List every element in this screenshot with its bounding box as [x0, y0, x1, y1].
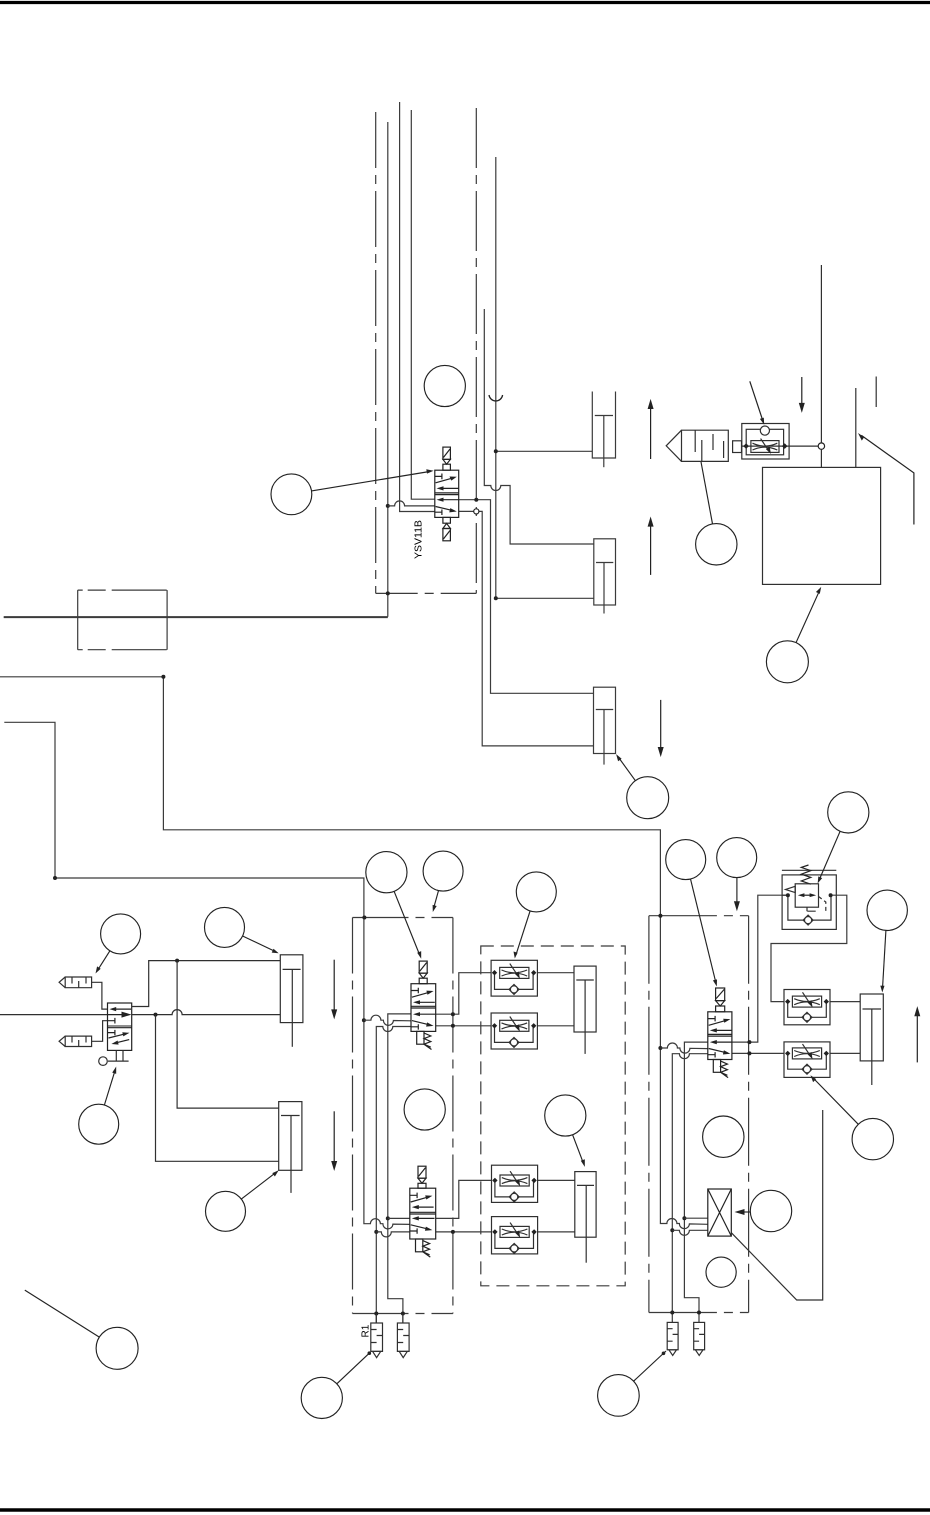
boundary dash-dot box right group	[649, 916, 749, 1313]
valve R top left arrow	[713, 1029, 731, 1031]
valve C2 top left arrow	[415, 1206, 433, 1208]
node junction dot supply to valve C1 port2	[362, 1018, 366, 1022]
svg-text:R1: R1	[361, 1324, 372, 1337]
valve C1 return spring	[417, 1031, 424, 1044]
REG left exhaust triangle	[786, 886, 796, 892]
valve C1 top left arrow	[417, 1001, 435, 1003]
valve C2 bottom blocked T	[410, 1228, 417, 1233]
FV0 adjustment arrow	[761, 439, 770, 452]
wire: valve C1 port1 to R1-B regulator	[388, 1014, 411, 1323]
short mark line right of main vertical	[875, 377, 877, 408]
hand valve body (left)	[108, 1003, 132, 1050]
flow control valve FV1	[491, 960, 537, 996]
YSV11B bottom chamber blocked port T	[435, 510, 442, 516]
frame bottom border	[0, 1508, 930, 1511]
wire: branch to cylinder L2 bottom port	[156, 1015, 279, 1162]
wire: valve C1 right port1 to FV1	[436, 973, 491, 1015]
cylinder R	[860, 994, 883, 1061]
balloon circle cylinder3 with leader	[627, 777, 669, 819]
flow control valve FV4	[492, 1217, 538, 1254]
valve C2 top diagonal arrow	[411, 1197, 430, 1202]
solenoid valve R body	[708, 1012, 732, 1060]
motion arrow up beside cylinder2	[650, 521, 652, 575]
valve R bottom blocked T	[708, 1052, 715, 1057]
wire: YSV11B right port3 down to cylinder3 lower port	[459, 511, 594, 746]
hand valve through arrow	[108, 1014, 128, 1016]
wire: branch to cylinder L2 top port	[177, 961, 279, 1109]
FV0 check circle	[760, 426, 769, 435]
hand valve top chamber blocked T	[108, 1018, 115, 1024]
node junction dot X-box port1 branch	[682, 1216, 686, 1220]
node dot boundary crossing C2 port3	[451, 1230, 455, 1234]
muffler silencer top right	[682, 430, 729, 461]
wire: FV4 to cylinder C2	[538, 1231, 575, 1233]
balloon circle regulator RB-A with leader	[598, 1375, 640, 1417]
valve R bottom left arrow	[713, 1041, 732, 1043]
FV0 throttle bowtie	[753, 443, 778, 450]
balloon circle FV-R2 with leader	[852, 1118, 893, 1159]
node junction dot R1-B feed	[401, 1312, 405, 1316]
balloon circle center box with leader	[423, 851, 463, 891]
node open circle on boundary crossing	[474, 509, 479, 514]
valve C1 bottom diagonal arrow	[412, 1021, 431, 1026]
solenoid valve YSV11B body	[435, 470, 459, 517]
wire: supply line to cylinder1 and cylinder2 lower port	[496, 157, 594, 598]
frame top border	[0, 1, 930, 4]
pressure regulator R1-A	[371, 1323, 383, 1351]
node junction dot on top wire	[175, 959, 179, 963]
dashed enclosure box around center flow controls	[481, 946, 625, 1286]
REG internal opposed arrows	[802, 894, 813, 896]
valve R pilot solenoid	[716, 988, 725, 1001]
wire: horizontal supply at y618 through dashed rectangle	[4, 617, 388, 619]
valve C2 pilot solenoid	[418, 1166, 426, 1178]
balloon circle bottom left with leader	[96, 1327, 138, 1369]
node junction dot supply branch	[154, 1013, 158, 1017]
valve C1 bottom left arrow	[417, 1013, 436, 1015]
wire: supply line y677 to right group	[0, 677, 708, 1229]
valve C1 top chamber blocked T	[411, 988, 418, 994]
balloon circle YSV11B with leader	[271, 474, 312, 515]
node dot boundary crossing R port3	[747, 1051, 751, 1055]
balloon circle cylinder L2 with leader	[206, 1191, 246, 1231]
valve C1 top diagonal arrow	[412, 992, 431, 997]
motion arrow up beside cylinder R	[916, 1010, 918, 1062]
YSV11B top chamber left arrow	[440, 487, 459, 489]
balloon circle R1 with leader	[301, 1377, 342, 1418]
leader line to FV0 adjust knob	[750, 381, 763, 420]
wire: valve R port3 to regulator A with hop	[672, 1054, 708, 1323]
flow control valve FV-R1	[784, 990, 830, 1025]
pilot circle at valve bottom	[99, 1057, 108, 1066]
REG spring	[801, 865, 811, 884]
valve R bottom diagonal arrow	[709, 1049, 728, 1054]
connector stub between muffler and flow control	[733, 441, 742, 453]
solenoid valve C1 body	[411, 984, 436, 1032]
node junction dot valve C2 port3 branch	[374, 1230, 378, 1234]
wire: silencer1 to valve top port	[92, 982, 108, 1009]
flow control valve FV-R2	[784, 1042, 830, 1078]
wire: pilot line to YSV11B port3 from top	[400, 102, 435, 512]
wire: valve R right port1 up to regulator	[732, 895, 788, 1042]
balloon circle silencers with leader	[101, 914, 141, 954]
wire: valve C2 right port1 to FV3	[436, 1180, 492, 1218]
wire: silencer2 to valve port	[92, 1021, 108, 1042]
balloon circle cylinder R with leader	[867, 890, 907, 930]
node dot boundary top crossing	[362, 916, 366, 920]
pressure regulator RB-B	[694, 1322, 705, 1349]
node junction dot R1-A feed	[374, 1312, 378, 1316]
pressure regulator REG top line	[782, 869, 836, 871]
wire: regulator out to FV-R1 staircase	[771, 895, 847, 1001]
node dot boundary crossing R port1	[747, 1040, 751, 1044]
cylinder L1	[280, 955, 303, 1023]
node junction dot cylinder2 lower branch	[494, 596, 498, 600]
valve R top diagonal arrow	[709, 1020, 728, 1025]
balloon circle top floating	[424, 365, 465, 406]
flow control valve FV0 (with top check)	[742, 424, 789, 460]
wire: main vertical line from top to square	[820, 265, 822, 467]
valve C2 return spring	[416, 1239, 423, 1252]
wire: YSV11B port2 connection with hop	[388, 501, 435, 506]
node junction dot regulator B feed	[697, 1311, 701, 1315]
cylinder C1	[574, 966, 596, 1032]
pointer arrow at stub line	[861, 435, 914, 524]
wire: X-box port3 from vertical with hop	[672, 1230, 708, 1235]
motion arrow down left of main line	[801, 377, 803, 409]
wire: valve to cylinder L1 top port	[132, 961, 281, 1007]
flow direction curved arrow on supply line	[489, 395, 503, 401]
balloon circle cylinder C2 with leader	[545, 1095, 586, 1136]
wire: X-box port1 from vertical	[684, 1217, 707, 1219]
wire: YSV11B right port1 down to cylinder3 upper port	[459, 500, 594, 694]
node junction dot valve C2 port1 branch	[386, 1216, 390, 1220]
balloon circle right box with leader arrow	[717, 838, 757, 878]
cylinder 1 (top right of YSV11B)	[592, 392, 615, 459]
port diamond right FV0	[782, 443, 788, 449]
valve R return spring	[713, 1060, 720, 1073]
YSV11B pilot solenoid top	[443, 447, 451, 459]
wire: FV2 to cylinder C1	[537, 1025, 574, 1027]
hand valve bottom diagonal arrow 1	[109, 1034, 127, 1038]
node dot boundary crossing port1	[451, 1012, 455, 1016]
wire: stub line into square top	[855, 388, 857, 467]
node junction dot at supply corner	[161, 675, 165, 679]
cylinder 3 (lower right of YSV11B)	[594, 687, 616, 753]
REG through line	[782, 894, 788, 896]
valve C2 top chamber blocked T	[410, 1193, 417, 1199]
YSV11B bottom chamber left arrow	[440, 499, 459, 501]
wire: valve C2 right port3 to FV4	[436, 1231, 492, 1233]
node junction dot regulator A feed	[670, 1311, 674, 1315]
wire: pilot line to YSV11B port1 from top	[411, 110, 435, 499]
cylinder L2	[279, 1102, 302, 1171]
REG bottom stub	[807, 907, 816, 911]
REG pilot dashed line	[819, 897, 826, 912]
pressure regulator RB-A	[667, 1322, 678, 1349]
motion arrow down beside cylinder L2	[333, 1111, 335, 1167]
balloon circle regulator with leader	[828, 792, 869, 833]
node junction dot supply to valve R port2	[658, 1046, 662, 1050]
wire: pilot line to YSV11B port2 from top	[4, 122, 388, 617]
motion arrow down beside cylinder3	[660, 700, 662, 753]
hand valve bottom chamber blocked T	[108, 1030, 115, 1035]
motion arrow down beside cylinder L1	[333, 960, 335, 1016]
silencer 1 left	[59, 977, 92, 988]
cylinder C2	[575, 1172, 596, 1238]
wire: valve C1 port2 from supply with hops	[364, 1015, 411, 1025]
balloon circle right floating	[703, 1116, 744, 1157]
REG check loop	[788, 895, 831, 920]
solenoid valve C2 body	[410, 1188, 436, 1239]
wire: main supply from left edge	[0, 1014, 108, 1016]
balloon circle muffler with leader	[696, 524, 737, 565]
balloon circle valve R with leader	[666, 840, 706, 880]
wire: supply line to cylinder L1 bottom port with hop	[132, 1010, 281, 1015]
node dot REG right port	[829, 893, 833, 897]
port diamond left FV0	[743, 443, 749, 449]
valve C2 bottom left arrow	[415, 1217, 434, 1219]
node dot boundary crossing port3	[451, 1024, 455, 1028]
wire: FV-R2 to cylinder R	[830, 1052, 860, 1054]
REG inner box	[795, 884, 818, 907]
wire: valve C2 port3 from vertical with hop	[376, 1232, 410, 1237]
node junction dot X-box port3 branch	[670, 1228, 674, 1232]
balloon circle center floating	[404, 1089, 445, 1130]
node junction dot cylinder1 branch	[494, 449, 498, 453]
hand valve top chamber exhaust arrow	[113, 1008, 132, 1010]
silencer 2 left	[59, 1036, 92, 1046]
hand valve bottom diagonal arrow 2	[115, 1040, 130, 1044]
boundary dash-dot box around YSV11B (right edge)	[475, 108, 477, 593]
balloon circle cylinder L1 with leader	[205, 907, 245, 947]
wire: FV1 to cylinder C1	[537, 972, 574, 974]
node junction dot at YSV11B box bottom crossing	[386, 591, 390, 595]
REG check diamond	[803, 915, 813, 925]
YSV11B return spring bottom	[443, 517, 451, 523]
wire: valve C2 port1 from vertical	[388, 1217, 410, 1219]
node junction dot on YSV11B port2 wire	[386, 504, 390, 508]
YSV11B top chamber diagonal arrow	[436, 478, 455, 483]
node open circle junction at main line	[818, 443, 824, 449]
svg-text:YSV11B: YSV11B	[413, 520, 425, 559]
pressure regulator R1-B	[397, 1323, 409, 1351]
wire: valve R port1 to regulator B	[684, 1042, 707, 1322]
node junction dot at supply corner left	[53, 876, 57, 880]
balloon circle small floating	[706, 1257, 736, 1287]
flow control valve FV3	[492, 1165, 538, 1202]
valve R top chamber blocked T	[708, 1016, 715, 1022]
boundary dash-dot box center group	[353, 918, 453, 1314]
node dot REG left port	[786, 893, 790, 897]
exhaust block X-box	[708, 1189, 732, 1236]
node dot boundary top crossing right	[658, 914, 662, 918]
hand valve bottom stubs and lever T	[108, 1050, 129, 1061]
YSV11B bottom chamber diagonal arrow	[436, 507, 455, 511]
flow control valve FV2	[491, 1013, 537, 1049]
cylinder 2 (right of YSV11B)	[594, 539, 616, 605]
valve C1 bottom blocked T	[411, 1024, 418, 1029]
node junction dot port1 wire on boundary	[474, 498, 478, 502]
balloon circle X-box with leader arrow	[750, 1190, 791, 1231]
wire: supply line y722 to center group	[4, 722, 410, 1229]
wire: through line FV0 to junction	[742, 445, 819, 447]
pressure regulator REG outer box	[782, 875, 836, 930]
wire: valve C1 port3 to R1-A regulator with hop	[376, 1027, 411, 1324]
wire: line to cylinder2 upper port with hop	[484, 309, 594, 544]
boundary dash-dot box around YSV11B (left edge)	[375, 112, 377, 593]
balloon circle FV1 with leader	[516, 872, 556, 912]
wire: X-box pointer line	[731, 1110, 822, 1300]
balloon circle air-unit with leader	[766, 641, 808, 683]
valve C1 pilot solenoid	[419, 961, 427, 973]
wire: valve R port2 from supply with hops	[660, 1043, 707, 1053]
motion arrow up beside cylinder1	[650, 403, 652, 459]
wire: FV-R1 to cylinder R	[830, 1001, 860, 1003]
YSV11B top chamber blocked port T	[435, 474, 442, 480]
balloon circle valve C1 with leader	[366, 852, 407, 893]
wire: valve R right port3 to FV-R2	[732, 1052, 784, 1054]
boundary dash-dot box around YSV11B (bottom edge)	[376, 592, 477, 594]
balloon circle hand valve with leader	[79, 1104, 119, 1144]
big square component (air unit)	[763, 467, 881, 584]
wire: FV3 to cylinder C2	[538, 1179, 575, 1181]
valve C2 bottom diagonal arrow	[411, 1225, 430, 1230]
wire: valve C1 right port3 to FV2	[436, 1025, 491, 1027]
dashed rectangle on left supply line	[78, 590, 167, 650]
